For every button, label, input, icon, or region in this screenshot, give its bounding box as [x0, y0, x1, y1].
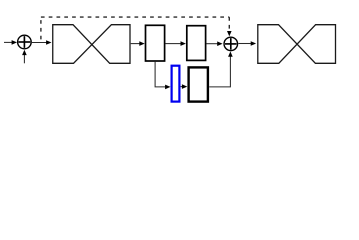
- wire block B2 to adder S2: [207, 41, 223, 46]
- filterbank F2 (bowtie block): [258, 25, 336, 64]
- dashed feedback wire: right vertical with arrow into adder S2: [227, 17, 232, 36]
- wire branch from block B1 bottom down to blue block Q: [155, 62, 170, 89]
- wire input arrow into adder S1: [4, 40, 17, 45]
- wire bottom input arrow into adder S1: [22, 50, 27, 64]
- adder S2 (plus in circle): [224, 37, 238, 51]
- highlighted block Q (blue rectangle): [172, 66, 180, 102]
- block B1 (rectangle): [146, 25, 165, 61]
- filterbank F1 (bowtie block): [53, 25, 130, 64]
- dashed feedback wire: top horizontal: [41, 16, 229, 18]
- wire block B1 to block B2: [166, 41, 186, 46]
- wire filterbank F1 to block B1: [131, 41, 145, 46]
- block B3 (thick rectangle): [189, 67, 208, 101]
- block B2 (rectangle): [187, 26, 206, 61]
- wire adder S2 to filterbank F2: [238, 41, 256, 46]
- wire adder S1 to filterbank F1: [32, 40, 52, 45]
- dashed feedback wire: junction vertical: [40, 17, 42, 42]
- wire block B3 up into adder S2: [209, 51, 233, 87]
- wire blue block Q to block B3: [181, 84, 188, 89]
- adder S1 (plus in circle): [18, 35, 32, 49]
